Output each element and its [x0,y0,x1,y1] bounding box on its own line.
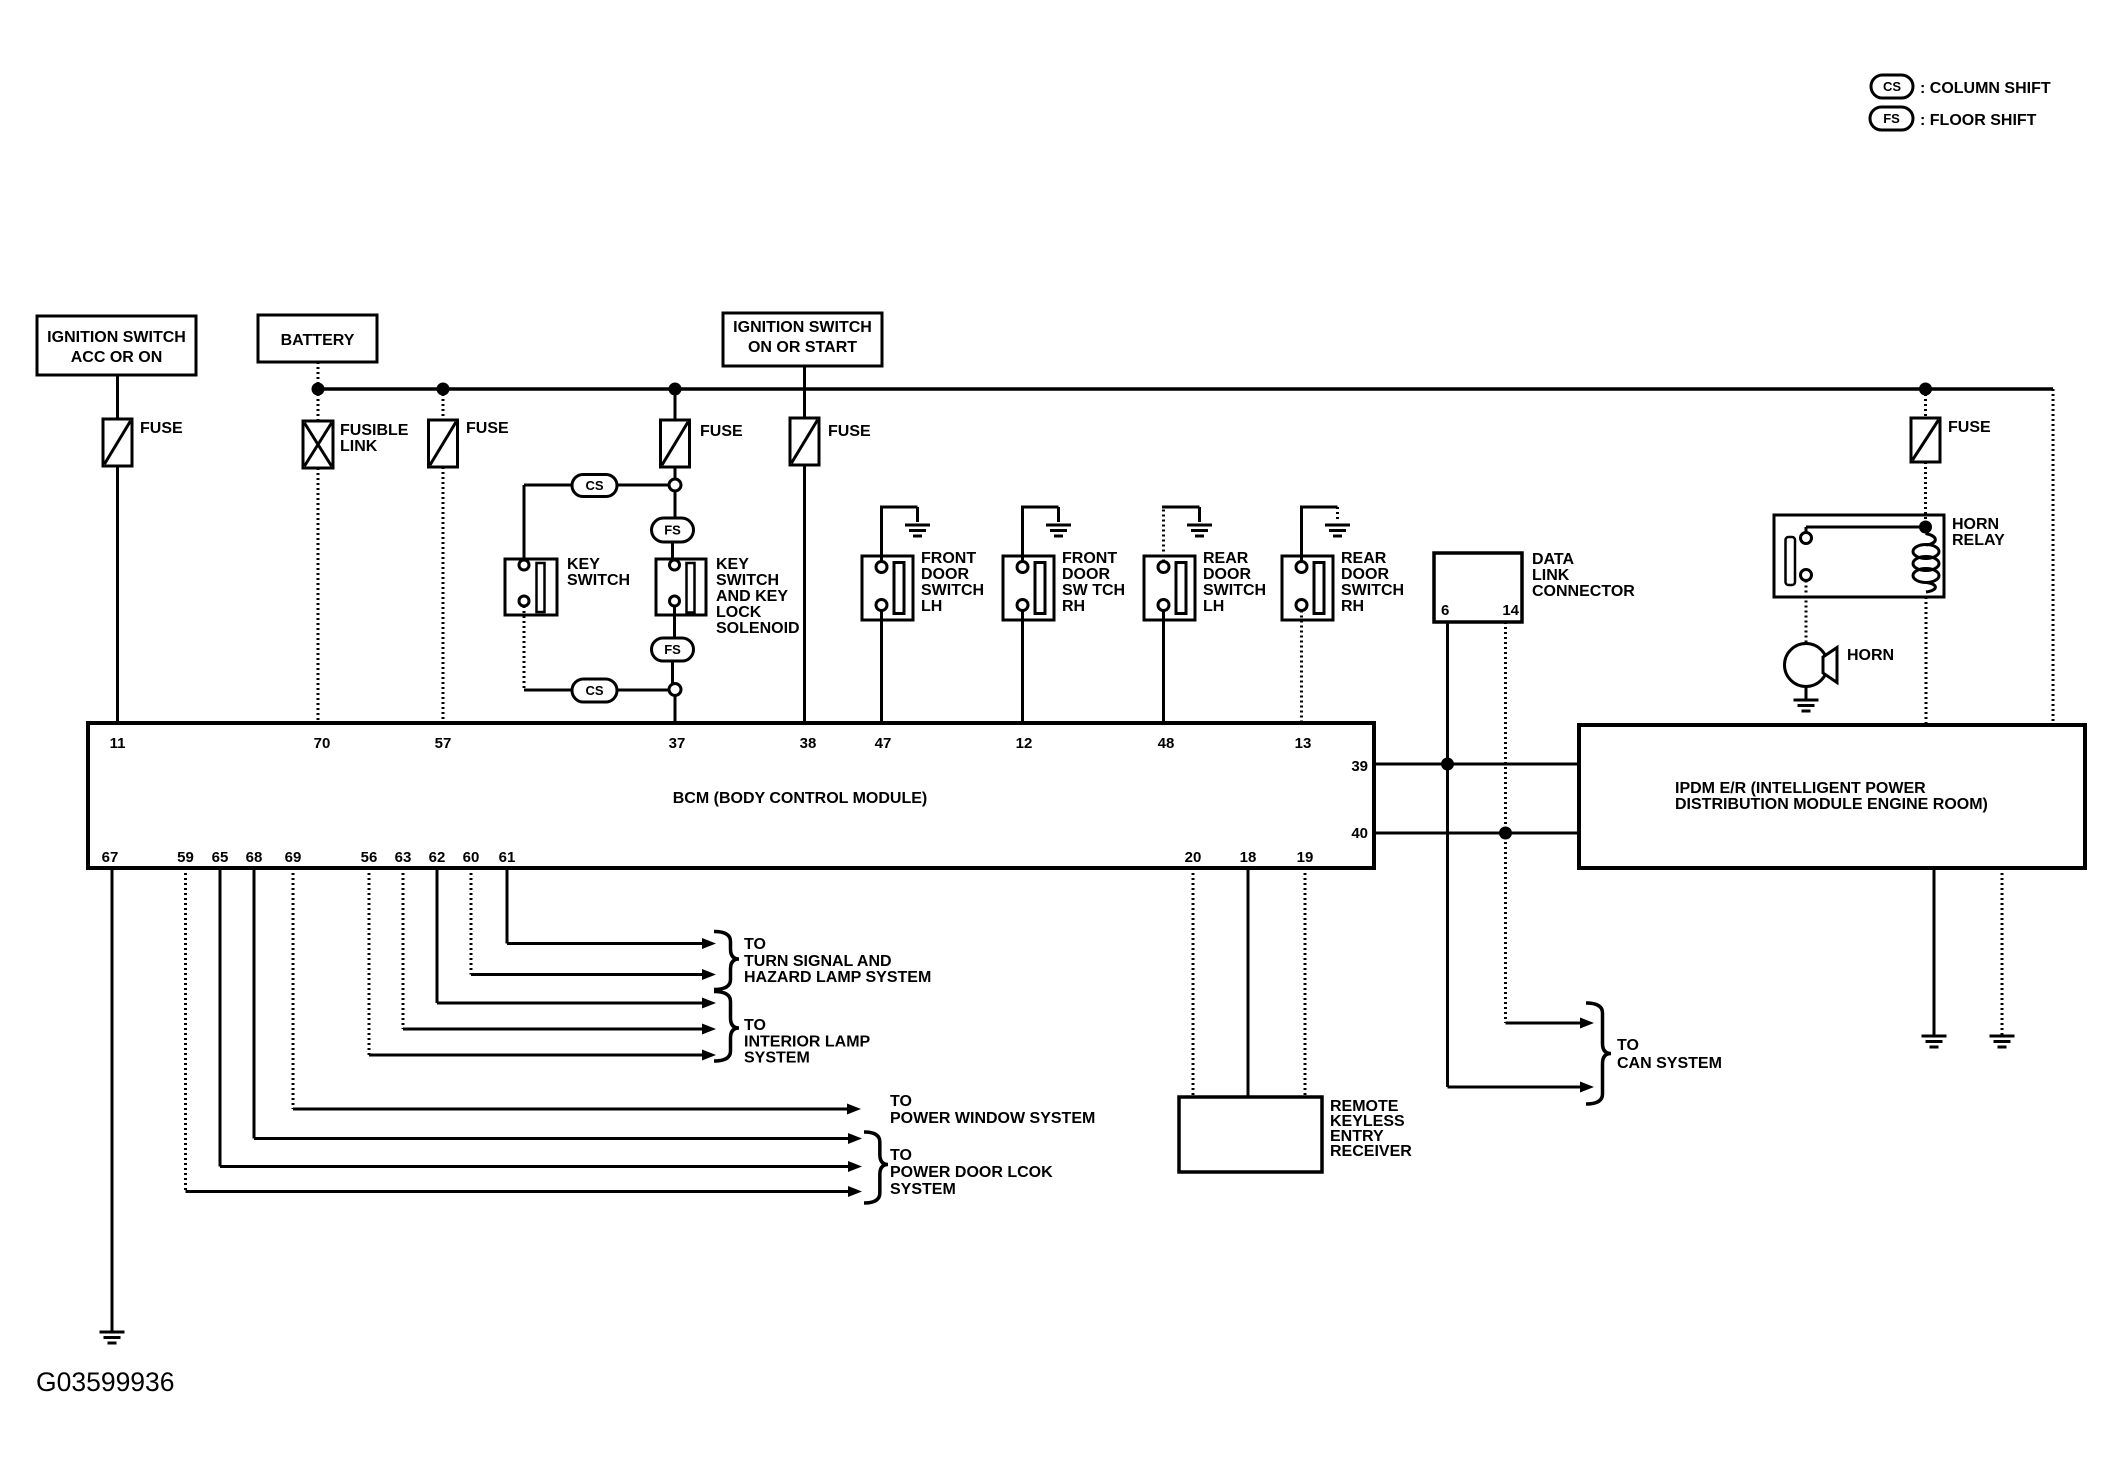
svg-text:SOLENOID: SOLENOID [716,620,800,637]
svg-text:INTERIOR LAMP: INTERIOR LAMP [744,1034,871,1051]
svg-text:48: 48 [1158,735,1175,752]
pin label 47 (BCM top) [875,735,892,752]
brace: TO POWER DOOR LCOK SYSTEM [864,1132,888,1203]
svg-text:: FLOOR SHIFT: : FLOOR SHIFT [1920,112,2037,129]
wire: CS tag to key switch drop [524,485,572,560]
svg-text:FS: FS [664,523,681,538]
label: FUSE (F3) [700,423,743,440]
key switch KS1 box [505,559,557,615]
KS2 pin (upper) [670,560,680,570]
wire: KS1 lower pin down (CS path) [523,606,526,690]
pin label 18 (BCM bottom) [1240,849,1257,866]
label: REMOTE KEYLESS ENTRY RECEIVER [1330,1098,1412,1160]
svg-text:69: 69 [285,849,302,866]
svg-text:POWER WINDOW SYSTEM: POWER WINDOW SYSTEM [890,1110,1095,1127]
pin label 19 (BCM bottom) [1297,849,1314,866]
svg-text:KEY: KEY [716,556,749,573]
svg-text:POWER DOOR LCOK: POWER DOOR LCOK [890,1164,1053,1181]
svg-text:SYSTEM: SYSTEM [744,1050,810,1067]
wire: DLC pin 14 down to CAN system [1504,622,1507,1023]
label: rear door switch RH [1341,550,1404,615]
svg-text:18: 18 [1240,849,1257,866]
brace: TO TURN SIGNAL AND HAZARD LAMP SYSTEM [714,932,739,990]
wire: front door switch LH upper pin to ground [880,507,918,562]
svg-text:57: 57 [435,735,452,752]
legend symbol CS (column shift) [1871,75,1913,98]
junction: horn relay coil feed [1919,521,1932,534]
junction: bus to fuse (pin 57 branch) [437,383,450,396]
label: IPDM E/R [1675,780,1988,813]
wire: BCM pin 61 output arrow [507,868,716,949]
pin label 40 (BCM right) [1351,825,1368,842]
wire: BCM pin 59 output arrow [186,868,863,1197]
svg-text:59: 59 [177,849,194,866]
svg-text:AND KEY: AND KEY [716,588,788,605]
svg-text:KEY: KEY [567,556,600,573]
power source box: IGNITION SWITCH ON OR START [723,313,882,366]
wire: BCM pin 20 to receiver [1192,868,1195,1097]
wire: CAN-L arrow to CAN system [1506,1018,1595,1029]
front door switch LH contact bar [894,563,904,614]
wire: BCM pin 40 to IPDM [1374,832,1579,835]
wire: horn relay internal top link [1806,527,1926,533]
svg-text:CS: CS [585,683,603,698]
svg-text:60: 60 [463,849,480,866]
pin label 70 (BCM top) [314,735,331,752]
label: front door switch RH [1062,550,1125,615]
fuse F5 [1911,418,1940,462]
node: CS/FS upper connector [669,479,681,491]
fuse F4 [790,418,819,465]
svg-text:REAR: REAR [1203,550,1249,567]
junction: battery to bus [312,383,325,396]
front door switch LH pin (lower) [876,600,887,611]
module box: IPDM E/R [1579,725,2085,868]
label: TO INTERIOR LAMP SYSTEM [744,1017,871,1067]
wire: BCM pin 67 to ground [111,868,114,1332]
label: HORN RELAY [1952,516,2005,549]
svg-text:ACC OR ON: ACC OR ON [71,349,163,366]
svg-text:ON OR START: ON OR START [748,339,857,356]
svg-text:DATA: DATA [1532,551,1575,568]
wire: BCM pin 18 to receiver [1247,868,1250,1097]
pin label 56 (BCM bottom) [361,849,378,866]
pin label 65 (BCM bottom) [212,849,229,866]
svg-text:BCM (BODY CONTROL MODULE): BCM (BODY CONTROL MODULE) [673,790,928,807]
svg-text:RH: RH [1341,598,1364,615]
label: FUSE (F2) [466,420,509,437]
junction: bus to fuse (pin 37 branch) [669,383,682,396]
ground: front door switch RH [1046,525,1071,536]
pin label 38 (BCM top) [800,735,817,752]
legend text: FLOOR SHIFT [1920,112,2037,129]
wire: horn to ground [1805,687,1808,700]
ground: rear door switch RH [1325,525,1350,536]
pin label 61 (BCM bottom) [499,849,516,866]
key switch and key lock solenoid KS2 box [656,559,706,615]
label: BCM (BODY CONTROL MODULE) [673,790,928,807]
wire: ignition ACC box to fuse F1 [116,375,119,419]
svg-text:LINK: LINK [340,438,378,455]
label: figure id G03599936 [36,1367,175,1397]
svg-text:FUSE: FUSE [466,420,509,437]
svg-text:SWITCH: SWITCH [716,572,779,589]
junction: bus to horn relay fuse branch [1919,383,1932,396]
svg-text:TURN SIGNAL AND: TURN SIGNAL AND [744,953,892,970]
wire: lower CS link left segment [524,689,572,692]
svg-text:56: 56 [361,849,378,866]
pin label 39 (BCM right) [1351,758,1368,775]
svg-text:68: 68 [246,849,263,866]
wire: IPDM ground (right) [2001,868,2004,1035]
svg-text:BATTERY: BATTERY [281,332,355,349]
fuse F3 [661,420,690,467]
svg-text:FUSE: FUSE [140,420,183,437]
svg-text:CONNECTOR: CONNECTOR [1532,583,1635,600]
wire: CAN-H arrow to CAN system [1448,1082,1595,1093]
rear door switch LH contact bar [1176,563,1186,614]
pin label 48 (BCM top) [1158,735,1175,752]
svg-text:FUSE: FUSE [700,423,743,440]
svg-text:CS: CS [585,478,603,493]
fusible link [303,421,333,468]
brace: TO CAN SYSTEM [1586,1003,1611,1104]
svg-text:37: 37 [669,735,686,752]
svg-text:12: 12 [1016,735,1033,752]
ground: IPDM right [1990,1036,2015,1047]
wire: front door switch RH lower pin down to BCM [1021,611,1024,724]
wire: lower CS tag to lower node [617,689,669,692]
legend symbol FS (floor shift) [1870,107,1913,130]
svg-text:HORN: HORN [1952,516,1999,533]
svg-text:DISTRIBUTION MODULE ENGINE ROO: DISTRIBUTION MODULE ENGINE ROOM) [1675,796,1988,813]
svg-text:DOOR: DOOR [1062,566,1110,583]
ground: rear door switch LH [1187,525,1212,536]
pin label 11 (BCM top) [110,735,126,752]
svg-text:6: 6 [1441,602,1449,619]
symbol: FS tag (lower) [652,638,694,661]
svg-text:CAN SYSTEM: CAN SYSTEM [1617,1055,1722,1072]
front door switch LH pin (upper) [876,562,887,573]
ground: IPDM left [1922,1036,1947,1047]
pin label 62 (BCM bottom) [429,849,446,866]
symbol: CS tag (upper) [572,475,617,497]
wire: fuse F1 to BCM pin 11 [116,466,119,723]
key switch KS1 pin (lower) [519,596,529,606]
svg-text:67: 67 [102,849,119,866]
label: TO POWER DOOR LCOK SYSTEM [890,1147,1053,1198]
svg-text:61: 61 [499,849,516,866]
label: front door switch LH [921,550,984,615]
svg-text:DOOR: DOOR [1203,566,1251,583]
wire: fuse F3 to CS node [674,466,677,479]
wire: FS tag to KS2 upper pin [671,542,674,560]
svg-text:47: 47 [875,735,892,752]
power source box: IGNITION SWITCH ACC OR ON [37,316,196,375]
svg-text:LH: LH [921,598,942,615]
horn [1785,644,1838,687]
svg-text:40: 40 [1351,825,1368,842]
wire: bus to fuse F2 [442,389,445,420]
wire: rear door switch LH upper pin to ground [1162,507,1200,562]
key switch KS1 contact bar [537,563,545,612]
remote keyless entry receiver box [1179,1097,1322,1172]
label: KEY SWITCH [567,556,630,589]
pin label 59 (BCM bottom) [177,849,194,866]
wire: fuse F2 to BCM pin 57 [442,467,445,723]
wire: upper node to FS tag [674,491,677,518]
svg-text:SWITCH: SWITCH [1203,582,1266,599]
pin label 14 (DLC) [1502,602,1519,619]
label: FUSE (F4) [828,423,871,440]
svg-text:SWITCH: SWITCH [1341,582,1404,599]
svg-text:RECEIVER: RECEIVER [1330,1143,1412,1160]
wire: BCM pin 19 to receiver [1304,868,1307,1097]
rear door switch RH contact bar [1314,563,1324,614]
svg-text:FS: FS [1883,111,1900,126]
label: FUSIBLE LINK [340,422,409,455]
svg-text:FRONT: FRONT [921,550,976,567]
brace: TO INTERIOR LAMP SYSTEM [714,992,739,1062]
svg-text:DOOR: DOOR [1341,566,1389,583]
svg-text:11: 11 [110,735,126,752]
rear door switch RH box [1282,556,1333,620]
junction: pin 39 line / DLC pin 6 wire [1441,758,1454,771]
label: HORN [1847,647,1894,664]
svg-text:19: 19 [1297,849,1314,866]
wire: rear door switch RH lower pin down to BCM [1300,611,1303,724]
svg-text:RELAY: RELAY [1952,532,2005,549]
label: TO TURN SIGNAL AND HAZARD LAMP SYSTEM [744,936,931,986]
svg-text:LOCK: LOCK [716,604,762,621]
rear door switch RH pin (lower) [1296,600,1307,611]
label: KEY SWITCH AND KEY LOCK SOLENOID [716,556,800,637]
svg-text:RH: RH [1062,598,1085,615]
wire: horn relay lower pin to horn [1805,581,1808,644]
svg-text:20: 20 [1185,849,1202,866]
legend text: COLUMN SHIFT [1920,80,2051,97]
rear door switch LH box [1144,556,1195,620]
svg-text:38: 38 [800,735,817,752]
front door switch RH pin (upper) [1017,562,1028,573]
symbol: CS tag (lower) [572,679,617,702]
wire: upper CS link left segment [617,484,669,487]
rear door switch LH pin (lower) [1158,600,1169,611]
svg-text:14: 14 [1502,602,1519,619]
wire: horn relay coil to IPDM [1925,597,1928,725]
svg-text:IGNITION SWITCH: IGNITION SWITCH [733,319,872,336]
wire: BCM pin 39 to IPDM [1374,763,1579,766]
horn relay coil [1913,534,1939,593]
wire: ignition ON/START box to fuse F4 (crosses bus) [803,366,806,418]
svg-text:HAZARD LAMP SYSTEM: HAZARD LAMP SYSTEM [744,969,931,986]
wire: BCM pin 60 output arrow [471,868,716,980]
label: DATA LINK CONNECTOR [1532,551,1635,600]
wire: bus to fusible link [317,389,320,421]
pin label 37 (BCM top) [669,735,686,752]
symbol: FS tag (upper) [652,518,694,542]
module box: BCM [88,723,1374,868]
front door switch RH box [1003,556,1054,620]
svg-text:LH: LH [1203,598,1224,615]
svg-text:G03599936: G03599936 [36,1367,175,1397]
label: FUSE (F1) [140,420,183,437]
svg-text:TO: TO [1617,1037,1639,1054]
wire: DLC pin 6 down to CAN system [1446,622,1449,1087]
horn relay box [1774,515,1944,597]
svg-text:SYSTEM: SYSTEM [890,1181,956,1198]
power source box: BATTERY [258,315,377,362]
svg-text:TO: TO [890,1093,912,1110]
wire: BCM pin 65 output arrow [220,868,862,1172]
front door switch RH pin (lower) [1017,600,1028,611]
wire: battery supply bus [318,387,2053,391]
svg-text:IPDM E/R (INTELLIGENT POWER: IPDM E/R (INTELLIGENT POWER [1675,780,1926,797]
key switch KS1 pin (upper) [519,560,529,570]
horn relay pin (upper) [1801,533,1812,544]
svg-text:SWITCH: SWITCH [567,572,630,589]
svg-text:TO: TO [744,936,766,953]
pin label 69 (BCM bottom) [285,849,302,866]
rear door switch RH pin (upper) [1296,562,1307,573]
svg-text:65: 65 [212,849,229,866]
wire: fusible link to BCM pin 70 [317,468,320,723]
svg-text:39: 39 [1351,758,1368,775]
rear door switch LH pin (upper) [1158,562,1169,573]
ground: BCM pin 67 [100,1332,125,1343]
pin label 68 (BCM bottom) [246,849,263,866]
wire: battery to bus [317,362,320,389]
svg-text:SWITCH: SWITCH [921,582,984,599]
label: TO CAN SYSTEM [1617,1037,1722,1072]
svg-text:63: 63 [395,849,412,866]
svg-text:TO: TO [744,1017,766,1034]
pin label 12 (BCM top) [1016,735,1033,752]
node: CS/FS lower connector [669,684,681,696]
wire: front door switch RH upper pin to ground [1021,507,1059,562]
front door switch LH box [862,556,913,620]
pin label 63 (BCM bottom) [395,849,412,866]
fuse F2 [429,420,458,467]
pin label 60 (BCM bottom) [463,849,480,866]
fuse F1 [103,419,132,466]
label: TO POWER WINDOW SYSTEM [890,1093,1095,1127]
wire: IPDM ground (left) [1933,868,1936,1035]
wire: fuse F5 to horn relay [1924,462,1927,521]
svg-text:FUSIBLE: FUSIBLE [340,422,409,439]
wire: lower node to BCM pin 37 [674,696,677,724]
wire: rear door switch LH lower pin down to BCM [1162,611,1165,724]
wire: BCM pin 68 output arrow [254,868,862,1144]
svg-text:REAR: REAR [1341,550,1387,567]
svg-text:IGNITION SWITCH: IGNITION SWITCH [47,329,186,346]
ground: front door switch LH [905,525,930,536]
wire: KS2 lower pin to FS tag (lower) [673,606,676,638]
svg-text:LINK: LINK [1532,567,1570,584]
svg-text:: COLUMN SHIFT: : COLUMN SHIFT [1920,80,2051,97]
KS2 pin (lower) [670,596,680,606]
horn relay pin (lower) [1801,570,1812,581]
pin label 57 (BCM top) [435,735,452,752]
pin label 20 (BCM bottom) [1185,849,1202,866]
ground: horn [1794,700,1819,711]
svg-text:FRONT: FRONT [1062,550,1117,567]
svg-text:TO: TO [890,1147,912,1164]
svg-text:FUSE: FUSE [828,423,871,440]
svg-text:DOOR: DOOR [921,566,969,583]
svg-text:62: 62 [429,849,446,866]
svg-text:FUSE: FUSE [1948,419,1991,436]
wire: BCM pin 56 output arrow [369,868,716,1061]
wire: BCM pin 63 output arrow [403,868,716,1035]
wire: bus to fuse F3 [674,389,677,420]
label: rear door switch LH [1203,550,1266,615]
wire: FS tag lower to node [671,661,674,684]
svg-text:70: 70 [314,735,331,752]
wire: fuse F4 to BCM pin 38 [803,466,806,723]
pin label 6 (DLC) [1441,602,1449,619]
data link connector box [1434,553,1522,622]
svg-text:SW TCH: SW TCH [1062,582,1125,599]
svg-text:HORN: HORN [1847,647,1894,664]
wire: BCM pin 69 output arrow [293,868,861,1115]
wire: bus to fuse F5 [1924,389,1927,418]
junction: pin 40 line / DLC pin 14 wire [1499,827,1512,840]
wire: BCM pin 62 output arrow [437,868,716,1009]
wire: rear door switch RH upper pin to ground [1300,507,1338,562]
KS2 contact bar [687,563,695,613]
wire: bus right branch down to IPDM [2052,389,2055,725]
wire: front door switch LH lower pin down to BCM [880,611,883,724]
svg-text:13: 13 [1295,735,1312,752]
svg-text:CS: CS [1883,79,1901,94]
pin label 13 (BCM top) [1295,735,1312,752]
pin label 67 (BCM bottom) [102,849,119,866]
front door switch RH contact bar [1035,563,1045,614]
svg-text:FS: FS [664,642,681,657]
label: FUSE (F5) [1948,419,1991,436]
horn relay contact bar [1786,537,1796,585]
